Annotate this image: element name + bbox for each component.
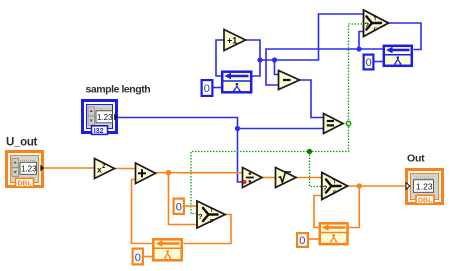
wire: constant 0 to FB3 initializer [144, 256, 153, 258]
wire: FB3 output up to Add lower input [132, 180, 153, 244]
subtract node [279, 71, 300, 90]
junction dot (counter line 2) [272, 57, 277, 62]
svg-text:1.23: 1.23 [416, 182, 433, 192]
svg-text:0: 0 [366, 57, 372, 69]
feedback node FB2 [383, 46, 414, 66]
constant 0 (FB3 initializer) [133, 249, 143, 265]
svg-text:0: 0 [135, 252, 141, 264]
svg-text:?: ? [365, 21, 370, 30]
svg-text:sample length: sample length [86, 84, 151, 96]
wire: branch down to Select2 F input [169, 173, 197, 225]
svg-text:0: 0 [299, 235, 305, 247]
svg-text:DBL: DBL [418, 197, 433, 204]
junction dot (FB2 output branch) [356, 46, 361, 51]
wire: junction down to Divide lower input [238, 129, 243, 183]
svg-text:U_out: U_out [6, 137, 38, 149]
constant 0 (FB1 initializer) [202, 80, 213, 96]
svg-text:0: 0 [204, 83, 210, 95]
junction dot (sample length branch) [235, 126, 240, 131]
svg-text:?: ? [323, 184, 328, 193]
junction dot (Add output) [166, 170, 171, 175]
svg-text:0: 0 [176, 201, 182, 213]
square root node [276, 168, 297, 188]
wire: constant 0 to FB2 initializer [374, 61, 384, 63]
increment node +1 [224, 30, 246, 51]
feedback node FB4 [319, 223, 349, 244]
indicator: Out (DBL) [406, 170, 443, 205]
wire: Square output to Add upper input [115, 168, 136, 170]
junction dot (Select3 output) [357, 183, 362, 188]
wire: counter line to Select1 T input [260, 14, 363, 60]
wire: increment output down to FB1 input [246, 40, 261, 76]
wire: U_out to Square input [44, 167, 95, 169]
boolean output ring at Equal output [346, 121, 350, 125]
divide node [243, 168, 263, 188]
equal node [324, 114, 344, 134]
select node S2 (bottom centre) [197, 201, 225, 228]
select node S1 (top right) [364, 10, 389, 37]
square node x^2 [95, 159, 115, 179]
wire: Divide output to SquareRoot input [262, 177, 276, 179]
wire: Add output to Divide upper input [156, 172, 243, 174]
feedback node FB3 [152, 239, 183, 260]
wire: constant 0 to FB4 initializer [309, 238, 319, 240]
wire: Subtract output to Equal upper input [300, 80, 324, 118]
svg-text:DBL: DBL [18, 180, 33, 187]
wire: Select2 output to FB3 input [184, 215, 232, 244]
wire: feedback node FB1 output to increment input [216, 40, 224, 76]
svg-text:+1: +1 [227, 36, 237, 46]
boolean junction dot [307, 149, 312, 154]
wire: boolean Equal output down-left to Select2 s input [191, 124, 349, 214]
svg-text:I32: I32 [94, 128, 104, 135]
wire: Select3 output to Out indicator [348, 185, 406, 187]
constant 0 (FB4 initializer) [297, 233, 308, 247]
svg-text:?: ? [198, 212, 203, 221]
wire: boolean branch down to Select3 s input [310, 152, 322, 187]
wire: branch to Subtract upper input [275, 60, 279, 75]
wire: junction to Equal lower input [238, 128, 324, 130]
control: sample length (I32) [83, 101, 118, 135]
svg-text:Out: Out [407, 153, 425, 165]
wire: constant 0 to Select2 T input [185, 205, 197, 207]
svg-text:1.23: 1.23 [21, 165, 37, 174]
wire: branch up to Select1 F input [359, 32, 363, 50]
wire: SquareRoot output to Select3 T input [296, 177, 322, 179]
feedback node FB1 [221, 72, 252, 93]
coercion dot (Divide lower input) [243, 180, 247, 184]
wire: branch down to FB4 input [349, 186, 359, 228]
wire: boolean Equal output up to Select1 s input [343, 24, 363, 124]
wire: FB4 output up to Select3 F input [314, 196, 322, 228]
junction dot (counter line 1) [257, 57, 262, 62]
wire: sample length output to junction [118, 118, 238, 129]
wire: FB2 output long line to Subtract lower input [266, 49, 383, 85]
wire: Select1 output to FB2 input [389, 23, 422, 50]
select node S3 (right) [322, 173, 348, 200]
add node [136, 163, 156, 184]
constant 0 (Select2 T) [174, 199, 184, 214]
svg-text:1.23: 1.23 [97, 113, 113, 122]
constant 0 (FB2 initializer) [364, 55, 374, 70]
control: U_out (DBL) [7, 152, 45, 188]
wire: constant 0 to FB1 initializer [214, 87, 222, 89]
